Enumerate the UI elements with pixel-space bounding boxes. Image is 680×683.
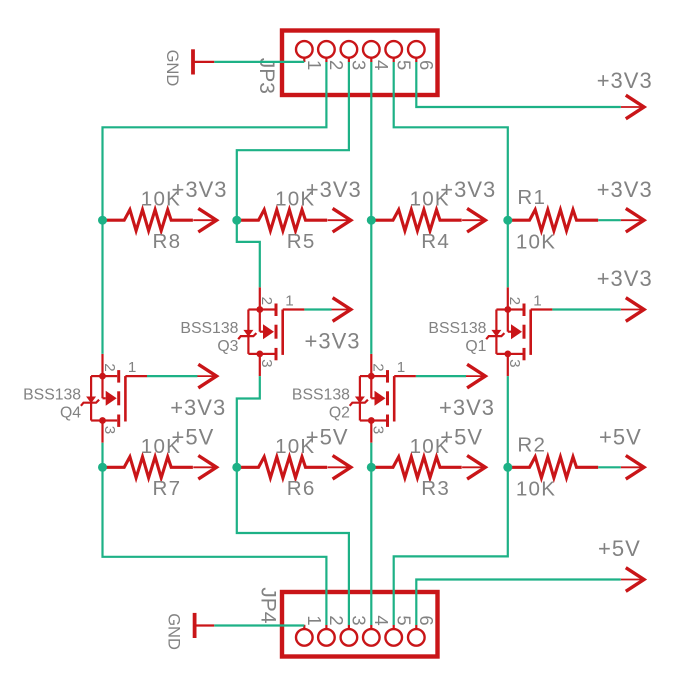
svg-text:+5V: +5V	[598, 536, 641, 561]
svg-text:R7: R7	[153, 477, 182, 500]
svg-text:1: 1	[397, 359, 405, 376]
svg-text:GND: GND	[164, 613, 182, 650]
svg-text:Q4: Q4	[60, 404, 81, 421]
svg-text:3: 3	[349, 615, 370, 625]
svg-text:R4: R4	[421, 230, 450, 253]
svg-text:+5V: +5V	[599, 424, 642, 449]
svg-text:10K: 10K	[516, 478, 556, 501]
svg-text:+5V: +5V	[306, 424, 349, 449]
svg-text:+3V3: +3V3	[306, 177, 362, 202]
svg-text:6: 6	[416, 60, 437, 70]
svg-text:+5V: +5V	[172, 424, 215, 449]
svg-text:1: 1	[304, 615, 325, 625]
svg-text:R1: R1	[517, 186, 546, 209]
svg-text:R5: R5	[287, 230, 316, 253]
svg-text:BSS138: BSS138	[23, 387, 81, 404]
svg-text:BSS138: BSS138	[180, 320, 238, 337]
svg-text:4: 4	[371, 60, 392, 70]
svg-text:+3V3: +3V3	[170, 395, 226, 420]
svg-text:6: 6	[416, 615, 437, 625]
svg-text:3: 3	[349, 60, 370, 70]
svg-text:1: 1	[285, 292, 293, 309]
svg-text:3: 3	[370, 426, 387, 434]
svg-text:+3V3: +3V3	[597, 266, 653, 291]
svg-text:R2: R2	[517, 433, 546, 456]
svg-text:+3V3: +3V3	[172, 177, 228, 202]
svg-text:1: 1	[128, 359, 136, 376]
svg-text:2: 2	[326, 615, 347, 625]
svg-text:GND: GND	[163, 50, 181, 87]
svg-text:2: 2	[506, 297, 523, 305]
svg-text:+3V3: +3V3	[305, 329, 361, 354]
svg-text:2: 2	[101, 363, 118, 371]
svg-text:1: 1	[533, 292, 541, 309]
svg-text:2: 2	[258, 297, 275, 305]
svg-text:1: 1	[304, 60, 325, 70]
svg-text:+3V3: +3V3	[597, 68, 653, 93]
svg-text:2: 2	[326, 60, 347, 70]
svg-text:BSS138: BSS138	[292, 387, 350, 404]
svg-text:+3V3: +3V3	[440, 177, 496, 202]
svg-text:5: 5	[394, 60, 415, 70]
svg-text:+3V3: +3V3	[439, 395, 495, 420]
svg-text:R3: R3	[421, 477, 450, 500]
svg-text:3: 3	[506, 359, 523, 367]
svg-text:3: 3	[101, 426, 118, 434]
svg-text:JP4: JP4	[257, 587, 280, 624]
svg-text:4: 4	[371, 615, 392, 625]
svg-text:+5V: +5V	[440, 424, 483, 449]
svg-text:Q3: Q3	[217, 338, 238, 355]
svg-text:5: 5	[394, 615, 415, 625]
svg-text:3: 3	[258, 359, 275, 367]
svg-text:BSS138: BSS138	[428, 320, 486, 337]
svg-text:R8: R8	[153, 230, 182, 253]
svg-text:JP3: JP3	[255, 58, 278, 94]
svg-text:R6: R6	[287, 477, 316, 500]
svg-text:Q2: Q2	[329, 404, 350, 421]
svg-text:Q1: Q1	[465, 338, 486, 355]
svg-text:10K: 10K	[516, 231, 556, 254]
svg-text:+3V3: +3V3	[597, 177, 653, 202]
svg-text:2: 2	[370, 363, 387, 371]
